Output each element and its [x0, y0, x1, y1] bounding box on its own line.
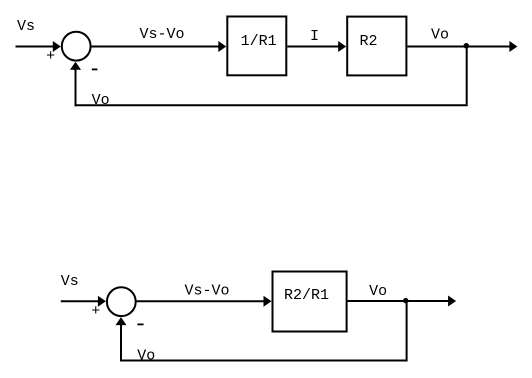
wire block 1/R1 to block R2	[287, 46, 339, 48]
wire feedback vertical left up to summing junction (top)	[75, 69, 77, 106]
svg-text:+: +	[91, 303, 100, 320]
minus sign at summing junction (bottom)	[137, 323, 143, 325]
svg-text:1/R1: 1/R1	[241, 33, 277, 50]
svg-text:Vs: Vs	[17, 18, 35, 35]
block 1/R1	[227, 17, 286, 76]
wire input to summing junction (bottom)	[61, 300, 99, 302]
wire feedback vertical right (bottom)	[406, 301, 408, 360]
arrowhead into summing junction (bottom)	[98, 296, 106, 307]
svg-text:Vo: Vo	[92, 92, 110, 109]
minus sign at summing junction (top)	[92, 68, 98, 70]
arrowhead output (top)	[509, 41, 517, 52]
svg-text:I: I	[310, 28, 319, 45]
svg-text:+: +	[46, 48, 55, 65]
wire summing junction to block 1/R1	[91, 46, 220, 48]
arrowhead into block R2/R1	[264, 296, 272, 307]
arrowhead into block R2	[338, 41, 346, 52]
wire feedback vertical left up to summing junction (bottom)	[120, 325, 122, 362]
summing junction circle (top)	[62, 32, 91, 61]
junction dot (bottom)	[403, 298, 408, 303]
arrowhead into summing junction (top)	[53, 41, 61, 52]
summing junction circle (bottom)	[107, 287, 136, 316]
arrowhead feedback into summing junction bottom (top)	[70, 62, 81, 70]
svg-text:Vs: Vs	[61, 273, 79, 290]
wire block R2 to output (top)	[407, 46, 510, 48]
arrowhead feedback into summing junction bottom (bottom)	[116, 317, 127, 325]
block R2	[347, 17, 406, 76]
svg-text:R2: R2	[360, 33, 378, 50]
wire input to summing junction (top)	[16, 46, 54, 48]
block R2/R1	[273, 272, 347, 332]
svg-text:R2/R1: R2/R1	[284, 287, 329, 304]
svg-text:Vo: Vo	[431, 27, 449, 44]
svg-text:Vs-Vo: Vs-Vo	[185, 283, 230, 300]
wire feedback horizontal bottom (top)	[75, 104, 468, 106]
svg-text:Vs-Vo: Vs-Vo	[140, 26, 185, 43]
svg-text:Vo: Vo	[369, 283, 387, 300]
wire feedback vertical right (top)	[466, 47, 468, 105]
arrowhead output (bottom)	[448, 296, 456, 307]
wire summing junction to block R2/R1	[136, 300, 265, 302]
wire feedback horizontal bottom (bottom)	[120, 360, 408, 362]
wire block R2/R1 to output (bottom)	[348, 300, 449, 302]
arrowhead into block 1/R1	[218, 41, 226, 52]
svg-text:Vo: Vo	[137, 348, 155, 365]
junction dot (top)	[464, 43, 470, 49]
